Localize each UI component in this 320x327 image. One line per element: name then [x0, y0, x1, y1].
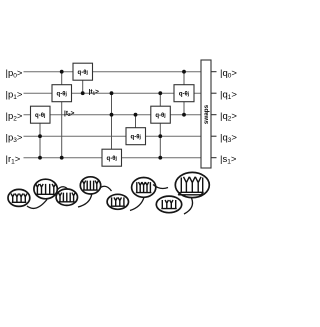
- svg-text:|p0>: |p0>: [6, 68, 23, 80]
- control dot U4 on p1: [110, 91, 114, 95]
- svg-text:q-θj: q-θj: [155, 113, 166, 119]
- control dot U6 on r1: [158, 156, 162, 160]
- thought bubble H: [175, 172, 209, 197]
- control dot U6 on p1: [158, 91, 162, 95]
- output stub q3: [211, 135, 217, 137]
- output stub q1: [211, 92, 217, 94]
- wire r1: [24, 157, 202, 159]
- control dot U7 on p0: [182, 70, 186, 74]
- thought bubble D: [80, 177, 100, 194]
- svg-text:|p2>: |p2>: [6, 111, 23, 123]
- bubble connector D-E: [101, 186, 112, 191]
- gate U5 q-θj on p3: [126, 128, 146, 145]
- svg-text:|s1>: |s1>: [220, 154, 237, 166]
- gate U2 q-θj on p1: [52, 85, 72, 102]
- svg-text:|p1>: |p1>: [6, 89, 23, 101]
- swaps box: [201, 60, 211, 168]
- wire p2: [24, 114, 202, 116]
- svg-text:q-θj: q-θj: [107, 156, 118, 162]
- bubble connector F-H: [153, 185, 168, 189]
- control dot U1 on r1: [38, 156, 42, 160]
- bubble connector B-C: [58, 187, 70, 191]
- output stub q0: [211, 71, 217, 73]
- bubble tail F: [130, 197, 144, 210]
- svg-text:q-θj: q-θj: [131, 135, 142, 141]
- wire p3: [24, 135, 202, 137]
- control dot U3 on p1: [81, 91, 85, 95]
- control line gate U1: [39, 115, 41, 158]
- svg-text:swaps: swaps: [203, 104, 210, 124]
- gate U7 q-θj on p1: [174, 85, 194, 102]
- svg-text:|q0>: |q0>: [220, 68, 237, 80]
- control dot U2 on r1: [60, 156, 64, 160]
- wire p1: [24, 92, 202, 94]
- gate U1 q-θj on p2: [31, 106, 51, 123]
- svg-text:q-θj: q-θj: [179, 92, 190, 98]
- svg-text:|p3>: |p3>: [6, 132, 23, 144]
- svg-text:|t1>: |t1>: [89, 88, 100, 96]
- control line gate U4: [111, 93, 113, 158]
- gate U4 q-θj on r1: [102, 149, 122, 166]
- control line gate U2: [61, 72, 63, 158]
- thought bubble F: [132, 178, 156, 198]
- control dot U2 on p0: [60, 70, 64, 74]
- control line gate U6: [159, 93, 161, 158]
- control line gate U3: [82, 72, 84, 93]
- svg-text:|q2>: |q2>: [220, 111, 237, 123]
- wire p0: [24, 71, 202, 73]
- control dot U1 on p3: [38, 134, 42, 138]
- output stub s1: [211, 157, 217, 159]
- svg-text:q-θj: q-θj: [78, 70, 89, 76]
- gate U6 q-θj on p2: [151, 106, 171, 123]
- control line gate U7: [183, 72, 185, 115]
- bubble tail D: [78, 194, 92, 207]
- thought bubble B: [34, 179, 57, 199]
- svg-text:|q1>: |q1>: [220, 90, 237, 102]
- control line gate U5: [135, 115, 137, 137]
- control dot U6 on p3: [158, 134, 162, 138]
- svg-text:|t2>: |t2>: [64, 110, 75, 118]
- gate U3 q-θj on p0: [73, 63, 93, 80]
- control dot U7 on p2: [182, 113, 186, 117]
- svg-text:|r1>: |r1>: [6, 154, 21, 166]
- control dot U4 on p2: [110, 113, 114, 117]
- svg-text:|q3>: |q3>: [220, 133, 237, 145]
- thought bubble A: [8, 189, 30, 206]
- bubble tail H: [184, 198, 193, 214]
- svg-text:q-θj: q-θj: [57, 92, 68, 98]
- thought bubble G: [156, 196, 181, 213]
- thought bubble E: [107, 194, 128, 209]
- control dot U5 on p2: [134, 113, 138, 117]
- bubble tail A-B: [27, 200, 47, 209]
- svg-text:q-θj: q-θj: [35, 113, 46, 119]
- output stub q2: [211, 114, 217, 116]
- thought bubble C: [56, 189, 77, 205]
